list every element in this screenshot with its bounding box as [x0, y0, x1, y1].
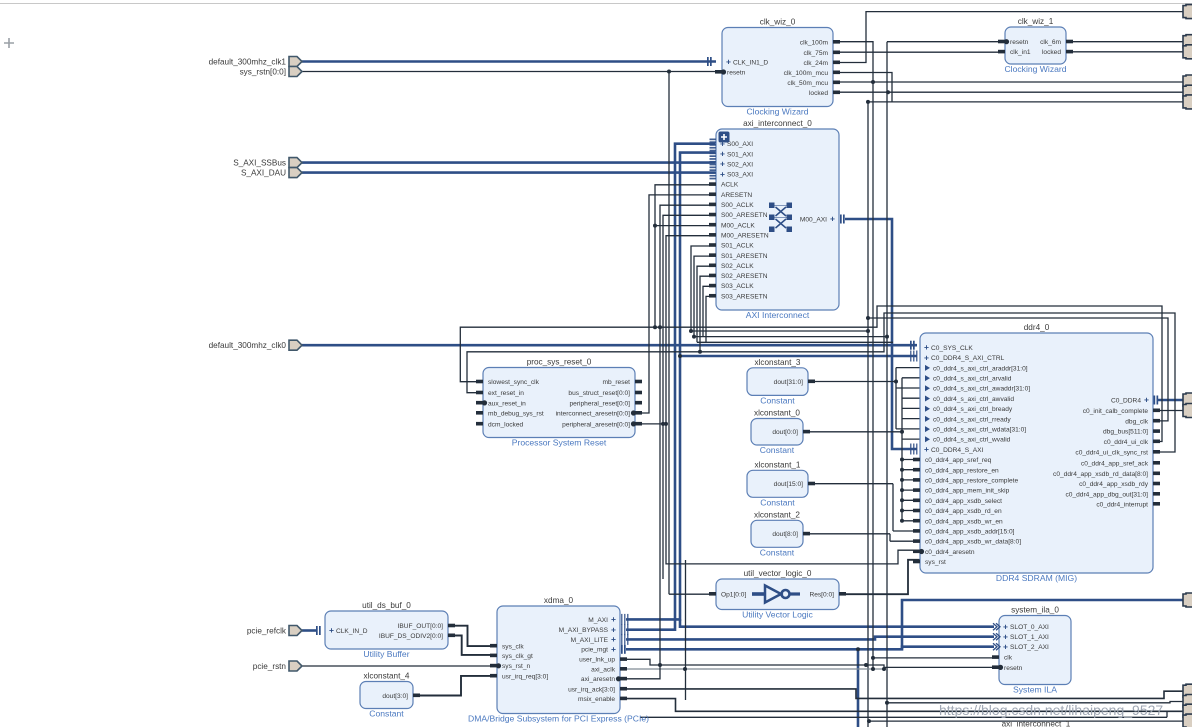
svg-text:Clocking Wizard: Clocking Wizard: [1004, 64, 1066, 74]
svg-text:sys_rst_n: sys_rst_n: [502, 663, 531, 670]
svg-text:c0_ddr4_app_sref_req: c0_ddr4_app_sref_req: [925, 457, 992, 464]
svg-text:dbg_clk: dbg_clk: [1125, 418, 1148, 425]
svg-text:c0_ddr4_app_restore_en: c0_ddr4_app_restore_en: [925, 467, 999, 474]
svg-text:clk_wiz_0: clk_wiz_0: [760, 18, 796, 27]
svg-text:+: +: [720, 169, 725, 179]
svg-text:c0_ddr4_interrupt: c0_ddr4_interrupt: [1096, 501, 1148, 508]
svg-text:M_AXI_BYPASS: M_AXI_BYPASS: [559, 627, 609, 634]
svg-text:interconnect_aresetn[0:0]: interconnect_aresetn[0:0]: [556, 410, 631, 417]
svg-text:c0_ddr4_app_dbg_out[31:0]: c0_ddr4_app_dbg_out[31:0]: [1066, 491, 1149, 498]
svg-text:locked: locked: [809, 90, 828, 97]
svg-text:S00_AXI: S00_AXI: [727, 141, 753, 148]
svg-text:dcm_locked: dcm_locked: [488, 421, 524, 428]
svg-text:+: +: [1003, 621, 1008, 631]
svg-text:c0_ddr4_app_xsdb_rd_data[8:0]: c0_ddr4_app_xsdb_rd_data[8:0]: [1053, 471, 1148, 478]
svg-text:IBUF_DS_ODIV2[0:0]: IBUF_DS_ODIV2[0:0]: [379, 633, 443, 640]
svg-text:clk_wiz_1: clk_wiz_1: [1018, 17, 1054, 26]
svg-text:dbg_bus[511:0]: dbg_bus[511:0]: [1103, 429, 1148, 436]
svg-text:xlconstant_4: xlconstant_4: [364, 672, 410, 681]
svg-text:M_AXI_LITE: M_AXI_LITE: [571, 637, 609, 644]
svg-text:c0_ddr4_app_xsdb_wr_data[8:0]: c0_ddr4_app_xsdb_wr_data[8:0]: [925, 539, 1021, 546]
svg-text:+: +: [1144, 395, 1149, 405]
svg-text:ACLK: ACLK: [721, 182, 739, 189]
svg-text:clk_24m: clk_24m: [803, 60, 828, 67]
svg-text:https://blog.csdn.net/lihaipen: https://blog.csdn.net/lihaipeng_9527: [939, 702, 1163, 718]
svg-text:dout[3:0]: dout[3:0]: [382, 693, 408, 700]
svg-text:c0_ddr4_s_axi_ctrl_awaddr[31:0: c0_ddr4_s_axi_ctrl_awaddr[31:0]: [933, 386, 1030, 393]
svg-text:c0_ddr4_s_axi_ctrl_wdata[31:0]: c0_ddr4_s_axi_ctrl_wdata[31:0]: [933, 427, 1026, 434]
svg-text:dout[8:0]: dout[8:0]: [772, 531, 798, 538]
svg-text:+: +: [1003, 631, 1008, 641]
svg-text:+: +: [611, 624, 616, 634]
svg-text:xlconstant_2: xlconstant_2: [754, 510, 800, 519]
svg-text:S01_ACLK: S01_ACLK: [721, 243, 754, 250]
svg-text:+: +: [720, 159, 725, 169]
svg-text:c0_ddr4_app_xsdb_wr_en: c0_ddr4_app_xsdb_wr_en: [925, 518, 1003, 525]
svg-text:M00_ARESETN: M00_ARESETN: [721, 232, 769, 239]
svg-text:Constant: Constant: [760, 395, 795, 405]
svg-text:pcie_mgt: pcie_mgt: [581, 647, 608, 654]
svg-text:Processor System Reset: Processor System Reset: [512, 438, 607, 448]
svg-text:resetn: resetn: [1010, 39, 1029, 46]
svg-text:system_ila_0: system_ila_0: [1011, 606, 1059, 615]
svg-text:C0_DDR4_S_AXI: C0_DDR4_S_AXI: [931, 447, 984, 454]
svg-text:S02_AXI: S02_AXI: [727, 161, 753, 168]
svg-text:peripheral_aresetn[0:0]: peripheral_aresetn[0:0]: [562, 421, 630, 428]
svg-text:c0_init_calb_complete: c0_init_calb_complete: [1083, 408, 1149, 415]
svg-text:axi_interconnect_1: axi_interconnect_1: [1002, 720, 1071, 727]
svg-text:Constant: Constant: [760, 497, 795, 507]
svg-text:S01_ARESETN: S01_ARESETN: [721, 253, 768, 260]
svg-text:c0_ddr4_s_axi_ctrl_wvalid: c0_ddr4_s_axi_ctrl_wvalid: [933, 437, 1011, 444]
svg-text:clk_6m: clk_6m: [1040, 39, 1061, 46]
svg-text:M_AXI: M_AXI: [588, 617, 608, 624]
svg-text:sys_rst: sys_rst: [925, 559, 946, 566]
svg-text:util_ds_buf_0: util_ds_buf_0: [362, 601, 411, 610]
svg-text:c0_ddr4_app_sref_ack: c0_ddr4_app_sref_ack: [1081, 460, 1149, 467]
svg-text:+: +: [611, 644, 616, 654]
svg-text:ddr4_0: ddr4_0: [1024, 323, 1050, 332]
svg-text:+: +: [924, 342, 929, 352]
svg-text:usr_irq_req[3:0]: usr_irq_req[3:0]: [502, 673, 548, 680]
svg-text:clk_100m: clk_100m: [800, 39, 829, 46]
svg-text:C0_DDR4: C0_DDR4: [1111, 397, 1141, 404]
svg-text:C0_DDR4_S_AXI_CTRL: C0_DDR4_S_AXI_CTRL: [931, 355, 1005, 362]
svg-text:ext_reset_in: ext_reset_in: [488, 390, 524, 397]
svg-text:SLOT_0_AXI: SLOT_0_AXI: [1010, 624, 1049, 631]
svg-text:usr_irq_ack[3:0]: usr_irq_ack[3:0]: [568, 686, 615, 693]
svg-text:c0_ddr4_s_axi_ctrl_araddr[31:0: c0_ddr4_s_axi_ctrl_araddr[31:0]: [933, 365, 1028, 372]
svg-text:IBUF_OUT[0:0]: IBUF_OUT[0:0]: [398, 623, 444, 630]
svg-text:c0_ddr4_app_mem_init_skip: c0_ddr4_app_mem_init_skip: [925, 488, 1010, 495]
svg-text:M00_AXI: M00_AXI: [800, 216, 827, 223]
svg-text:sys_clk_gt: sys_clk_gt: [502, 653, 533, 660]
svg-text:AXI Interconnect: AXI Interconnect: [746, 310, 810, 320]
svg-text:+: +: [329, 625, 334, 635]
svg-text:+: +: [726, 57, 731, 67]
svg-text:axi_interconnect_0: axi_interconnect_0: [743, 119, 812, 128]
svg-text:C0_SYS_CLK: C0_SYS_CLK: [931, 345, 973, 352]
svg-text:sys_rstn[0:0]: sys_rstn[0:0]: [240, 67, 286, 76]
svg-text:c0_ddr4_app_xsdb_select: c0_ddr4_app_xsdb_select: [925, 498, 1002, 505]
svg-text:c0_ddr4_app_xsdb_rd_en: c0_ddr4_app_xsdb_rd_en: [925, 508, 1002, 515]
svg-text:System ILA: System ILA: [1013, 685, 1057, 695]
svg-text:c0_ddr4_ui_clk_sync_rst: c0_ddr4_ui_clk_sync_rst: [1075, 449, 1148, 456]
svg-text:c0_ddr4_ui_clk: c0_ddr4_ui_clk: [1104, 439, 1149, 446]
svg-text:clk: clk: [1004, 655, 1013, 662]
svg-text:c0_ddr4_s_axi_ctrl_rready: c0_ddr4_s_axi_ctrl_rready: [933, 416, 1011, 423]
svg-text:user_lnk_up: user_lnk_up: [579, 657, 615, 664]
svg-text:xlconstant_3: xlconstant_3: [755, 358, 801, 367]
svg-text:S03_ACLK: S03_ACLK: [721, 283, 754, 290]
svg-text:SLOT_1_AXI: SLOT_1_AXI: [1010, 634, 1049, 641]
svg-text:S01_AXI: S01_AXI: [727, 151, 753, 158]
svg-text:Utility Buffer: Utility Buffer: [363, 649, 409, 659]
svg-text:c0_ddr4_s_axi_ctrl_awvalid: c0_ddr4_s_axi_ctrl_awvalid: [933, 396, 1014, 403]
svg-text:Op1[0:0]: Op1[0:0]: [721, 591, 746, 598]
svg-text:sys_clk: sys_clk: [502, 643, 524, 650]
svg-text:axi_aclk: axi_aclk: [591, 666, 616, 673]
svg-text:proc_sys_reset_0: proc_sys_reset_0: [527, 358, 592, 367]
svg-text:c0_ddr4_aresetn: c0_ddr4_aresetn: [925, 549, 975, 556]
svg-text:xdma_0: xdma_0: [544, 596, 574, 605]
svg-text:resetn: resetn: [727, 69, 746, 76]
svg-text:xlconstant_0: xlconstant_0: [754, 409, 800, 418]
svg-text:axi_aresetn: axi_aresetn: [581, 676, 615, 683]
svg-text:SLOT_2_AXI: SLOT_2_AXI: [1010, 644, 1049, 651]
svg-text:+: +: [720, 148, 725, 158]
svg-text:default_300mhz_clk0: default_300mhz_clk0: [209, 341, 287, 350]
svg-text:S03_ARESETN: S03_ARESETN: [721, 293, 768, 300]
svg-text:c0_ddr4_s_axi_ctrl_arvalid: c0_ddr4_s_axi_ctrl_arvalid: [933, 376, 1012, 383]
svg-text:S02_ARESETN: S02_ARESETN: [721, 273, 768, 280]
svg-text:dout[0:0]: dout[0:0]: [772, 429, 798, 436]
svg-text:S03_AXI: S03_AXI: [727, 172, 753, 179]
svg-text:dout[15:0]: dout[15:0]: [774, 481, 803, 488]
svg-text:ARESETN: ARESETN: [721, 192, 752, 199]
svg-text:clk_75m: clk_75m: [803, 50, 828, 57]
svg-text:clk_100m_mcu: clk_100m_mcu: [784, 70, 829, 77]
svg-text:clk_in1: clk_in1: [1010, 49, 1031, 56]
svg-text:pcie_refclk: pcie_refclk: [247, 626, 287, 635]
svg-text:Clocking Wizard: Clocking Wizard: [746, 107, 808, 117]
svg-text:default_300mhz_clk1: default_300mhz_clk1: [209, 57, 287, 66]
svg-text:locked: locked: [1042, 49, 1061, 56]
svg-text:pcie_rstn: pcie_rstn: [253, 662, 287, 671]
svg-text:mb_reset: mb_reset: [603, 379, 631, 386]
svg-text:+: +: [611, 614, 616, 624]
svg-text:+: +: [924, 444, 929, 454]
svg-text:Res[0:0]: Res[0:0]: [809, 591, 834, 598]
svg-text:resetn: resetn: [1004, 665, 1023, 672]
svg-text:Constant: Constant: [760, 445, 795, 455]
svg-text:bus_struct_reset[0:0]: bus_struct_reset[0:0]: [568, 390, 630, 397]
svg-text:M00_ACLK: M00_ACLK: [721, 222, 755, 229]
svg-text:Utility Vector Logic: Utility Vector Logic: [742, 610, 813, 620]
svg-text:clk_50m_mcu: clk_50m_mcu: [787, 80, 828, 87]
svg-text:CLK_IN_D: CLK_IN_D: [336, 628, 368, 635]
svg-text:+: +: [1003, 641, 1008, 651]
svg-text:c0_ddr4_s_axi_ctrl_bready: c0_ddr4_s_axi_ctrl_bready: [933, 406, 1013, 413]
svg-text:Constant: Constant: [369, 709, 404, 719]
svg-text:DDR4 SDRAM (MIG): DDR4 SDRAM (MIG): [996, 573, 1077, 583]
svg-text:mb_debug_sys_rst: mb_debug_sys_rst: [488, 410, 544, 417]
svg-text:msix_enable: msix_enable: [578, 696, 615, 703]
svg-text:util_vector_logic_0: util_vector_logic_0: [744, 569, 812, 578]
svg-text:DMA/Bridge Subsystem for PCI E: DMA/Bridge Subsystem for PCI Express (PC…: [468, 714, 649, 724]
svg-text:slowest_sync_clk: slowest_sync_clk: [488, 379, 540, 386]
svg-text:S00_ACLK: S00_ACLK: [721, 202, 754, 209]
svg-text:peripheral_reset[0:0]: peripheral_reset[0:0]: [570, 400, 631, 407]
svg-text:+: +: [924, 352, 929, 362]
svg-text:dout[31:0]: dout[31:0]: [774, 379, 803, 386]
svg-text:Constant: Constant: [760, 547, 795, 557]
svg-text:S_AXI_DAU: S_AXI_DAU: [241, 168, 286, 177]
svg-text:+: +: [611, 634, 616, 644]
svg-text:c0_ddr4_app_xsdb_rdy: c0_ddr4_app_xsdb_rdy: [1079, 481, 1149, 488]
svg-text:S02_ACLK: S02_ACLK: [721, 263, 754, 270]
svg-text:+: +: [830, 214, 835, 224]
svg-text:aux_reset_in: aux_reset_in: [488, 400, 526, 407]
svg-text:xlconstant_1: xlconstant_1: [755, 460, 801, 469]
svg-text:CLK_IN1_D: CLK_IN1_D: [733, 59, 768, 66]
svg-text:c0_ddr4_app_restore_complete: c0_ddr4_app_restore_complete: [925, 478, 1018, 485]
svg-text:S_AXI_SSBus: S_AXI_SSBus: [233, 158, 286, 167]
svg-text:c0_ddr4_app_xsdb_addr[15:0]: c0_ddr4_app_xsdb_addr[15:0]: [925, 529, 1015, 536]
svg-text:S00_ARESETN: S00_ARESETN: [721, 212, 768, 219]
